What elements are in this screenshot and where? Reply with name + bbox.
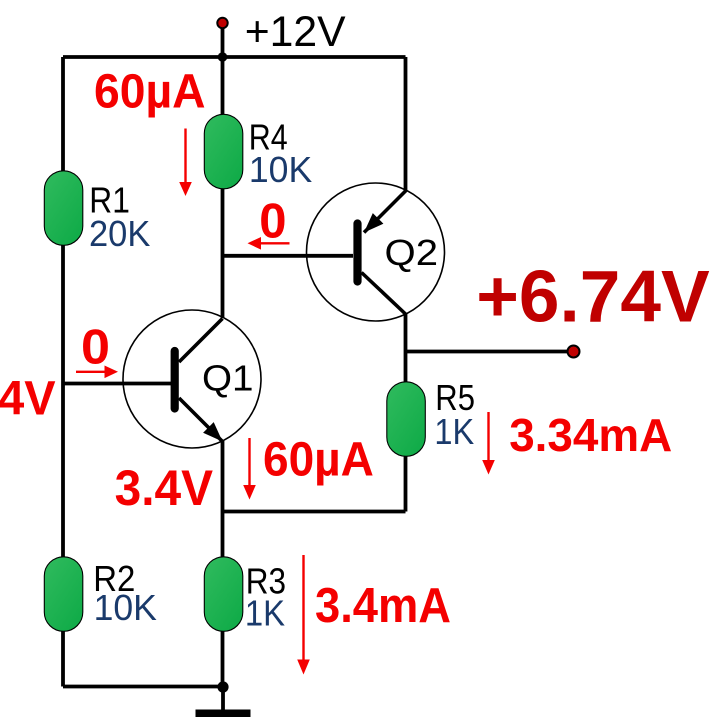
arrow 0 Q2 base (left) — [248, 237, 290, 250]
svg-text:10K: 10K — [94, 587, 157, 628]
arrow 3.4mA (down) — [297, 555, 310, 675]
node output terminal (red dot) — [568, 346, 580, 358]
svg-text:3.34mA: 3.34mA — [509, 409, 672, 461]
svg-text:1K: 1K — [434, 411, 474, 452]
resistor R3 — [204, 557, 286, 634]
junction dot bottom rail — [217, 681, 228, 692]
label 0 at Q1 base — [81, 320, 110, 374]
svg-text:60µA: 60µA — [263, 434, 374, 487]
wire left rail — [61, 57, 65, 687]
wire top rail — [63, 55, 406, 59]
wire middle vertical lower — [221, 441, 225, 687]
label 60uA bottom — [263, 434, 374, 487]
svg-text:3.4mA: 3.4mA — [315, 579, 451, 633]
svg-text:Q1: Q1 — [202, 357, 254, 398]
label 3.34mA — [509, 409, 672, 461]
junction dot top rail — [218, 52, 228, 62]
label +6.74V output voltage — [476, 256, 710, 337]
label +12V — [245, 8, 346, 56]
svg-text:4V: 4V — [0, 372, 56, 425]
svg-text:+6.74V: +6.74V — [476, 256, 710, 337]
resistor R1 — [44, 171, 150, 254]
arrow 3.34mA (down) — [482, 412, 495, 475]
wire +12V supply stub — [221, 23, 225, 57]
wire middle horizontal — [223, 510, 406, 514]
ground — [196, 687, 251, 717]
resistor R5 — [387, 377, 475, 456]
label 4V — [0, 372, 56, 425]
transistor Q1 — [123, 310, 261, 448]
arrow 60uA top (down) — [179, 129, 192, 197]
label 60uA top — [94, 64, 206, 118]
svg-text:Q2: Q2 — [385, 232, 439, 273]
label 0 at Q2 base — [259, 195, 286, 249]
wire bottom rail — [63, 685, 223, 689]
wire Q2 base — [223, 254, 354, 258]
wire middle vertical upper — [221, 57, 225, 318]
svg-text:+12V: +12V — [245, 8, 346, 56]
svg-text:10K: 10K — [249, 149, 312, 190]
label 3.4V — [115, 459, 214, 516]
resistor R4 — [204, 114, 312, 190]
wire right vertical lower — [404, 313, 408, 512]
svg-text:3.4V: 3.4V — [115, 459, 214, 516]
svg-text:0: 0 — [259, 195, 286, 249]
wire right vertical upper — [404, 57, 408, 191]
transistor Q2 — [307, 183, 445, 321]
resistor R2 — [44, 557, 157, 632]
arrow 0 Q1 base (right) — [76, 366, 118, 379]
svg-text:20K: 20K — [89, 213, 150, 254]
label 3.4mA — [315, 579, 451, 633]
node +12V terminal (red dot) — [217, 18, 227, 28]
svg-text:60µA: 60µA — [94, 64, 206, 118]
wire output — [406, 350, 574, 354]
svg-text:1K: 1K — [245, 593, 285, 634]
arrow 60uA bottom (down) — [243, 438, 256, 500]
wire Q1 base — [63, 382, 171, 386]
